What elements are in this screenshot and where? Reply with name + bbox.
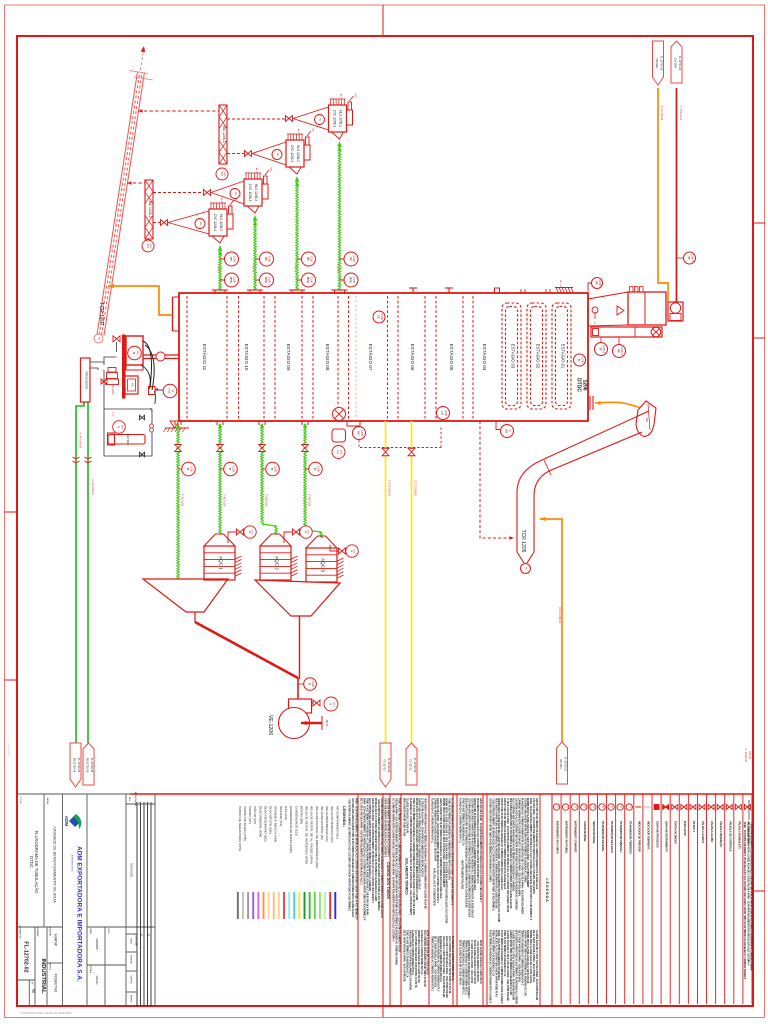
svg-text:1206.4: 1206.4 xyxy=(691,254,695,262)
svg-text:HEXANO (HX): HEXANO (HX) xyxy=(279,806,283,826)
svg-text:TUBO 40 A53 TÉRMICO FLANGEADA: TUBO 40 A53 TÉRMICO FLANGEADA AC CA xyxy=(462,798,465,846)
svg-text:1206: 1206 xyxy=(380,314,384,320)
svg-text:FL-12702-02: FL-12702-02 xyxy=(7,744,9,757)
svg-text:CONDENSADO (CD): CONDENSADO (CD) xyxy=(294,806,298,836)
svg-text:3"-VC-126-03: 3"-VC-126-03 xyxy=(660,106,663,121)
svg-text:FL-12702-06: FL-12702-06 xyxy=(90,758,93,773)
svg-text:C/ GR.B VÁLVULA PARA - SCH AST: C/ GR.B VÁLVULA PARA - SCH ASTM ISOLAMEN… xyxy=(506,798,509,912)
svg-text:TÉRMICO FLANGEADA AC CARBONO N: TÉRMICO FLANGEADA AC CARBONO NORMA NOTA … xyxy=(464,940,467,995)
svg-text:TT: TT xyxy=(687,256,691,260)
svg-text:PARA - SCH ASTM ISOLAMENTO 150: PARA - SCH ASTM ISOLAMENTO 150 INSTALAÇÃ… xyxy=(362,798,365,921)
svg-text:VÁLVULA GLOBO: VÁLVULA GLOBO xyxy=(710,821,713,842)
svg-text:INSTRUMENTO NO CAMPO: INSTRUMENTO NO CAMPO xyxy=(556,821,559,854)
svg-text:CLASSE ÁGUA DE C/ GR.B VÁLVULA: CLASSE ÁGUA DE C/ GR.B VÁLVULA PARA - SC… xyxy=(506,930,509,1001)
svg-text:TUBO 40 A53 TÉRMICO FLANGEADA: TUBO 40 A53 TÉRMICO FLANGEADA AC CARBONO… xyxy=(398,798,401,952)
svg-text:VAPOR TUBO 40 A53 TÉRMICO FLAN: VAPOR TUBO 40 A53 TÉRMICO FLANGEADA AC C… xyxy=(503,798,506,889)
svg-text:1206.2: 1206.2 xyxy=(602,345,606,353)
svg-text:DE C/ GR.B VÁLVULA PARA - SCH: DE C/ GR.B VÁLVULA PARA - SCH ASTM ISOL xyxy=(403,930,406,983)
svg-text:ASTM ISOLAMENTO 150 INSTALAÇÃO: ASTM ISOLAMENTO 150 INSTALAÇÃO AÇO COSTU… xyxy=(387,798,390,857)
svg-text:- SCH ASTM ISOLAMENTO 150 INST: - SCH ASTM ISOLAMENTO 150 INSTALAÇÃO AÇO… xyxy=(377,798,380,911)
svg-text:AR COMPRIMIDO (AC): AR COMPRIMIDO (AC) xyxy=(335,806,339,839)
svg-text:ADM: ADM xyxy=(64,816,69,827)
svg-text:2"-AQ-1206: 2"-AQ-1206 xyxy=(223,494,226,507)
svg-text:ÁGUA INDUSTRIAL DE EMERGÊNCIA: ÁGUA INDUSTRIAL DE EMERGÊNCIA (AIE) xyxy=(315,806,320,868)
svg-text:3"-VP-12: 3"-VP-12 xyxy=(294,264,296,274)
svg-text:FLANGEADA AC CARBONO NORMA NOT: FLANGEADA AC CARBONO NORMA NOTA CL xyxy=(431,798,434,844)
svg-text:FLANGEADA AC CARBONO NORMA NOT: FLANGEADA AC CARBONO NORMA NOTA CLASSE Á… xyxy=(409,798,412,915)
svg-text:FL-12700-01: FL-12700-01 xyxy=(564,757,567,772)
svg-text:PARA - SCH ASTM ISOLAMENTO 150: PARA - SCH ASTM ISOLAMENTO 150 INSTALA xyxy=(497,930,500,981)
svg-text:2"-AQ-1206: 2"-AQ-1206 xyxy=(181,494,184,507)
svg-text:RTS: RTS xyxy=(349,277,353,283)
svg-text:AC CARBONO NORMA NOTA CLASSE Á: AC CARBONO NORMA NOTA CLASSE ÁGUA DE C/ … xyxy=(746,822,749,966)
svg-text:TCR 1205: TCR 1205 xyxy=(520,530,526,553)
svg-text:TI: TI xyxy=(592,806,595,808)
svg-text:RTS: RTS xyxy=(264,277,268,283)
svg-text:AL-1: AL-1 xyxy=(340,94,343,99)
svg-text:PT: PT xyxy=(306,257,310,261)
svg-text:ADM EXPORTADORA E IMPORTADORA: ADM EXPORTADORA E IMPORTADORA S.A. xyxy=(76,846,83,982)
svg-text:REV: REV xyxy=(128,797,130,802)
svg-text:FL-12702-02: FL-12702-02 xyxy=(744,748,747,762)
svg-text:AL: AL xyxy=(199,222,203,226)
svg-text:ESTÁGIO 05: ESTÁGIO 05 xyxy=(449,344,455,371)
svg-text:FLANGEADA AC CARBONO NORMA NOT: FLANGEADA AC CARBONO NORMA NOTA CLASSE Á… xyxy=(520,798,523,915)
svg-text:TI: TI xyxy=(556,806,559,808)
svg-text:AL: AL xyxy=(276,153,280,157)
svg-text:K:\PROJETOS\FL-12702-02-R02.DW: K:\PROJETOS\FL-12702-02-R02.DWG xyxy=(20,1011,73,1015)
svg-text:1206: 1206 xyxy=(232,466,236,472)
svg-text:VER GAVETA VAPOR TUBO 40 A53 T: VER GAVETA VAPOR TUBO 40 A53 TÉRMICO FLA… xyxy=(515,930,518,1004)
svg-text:FLANGEADA AC CARBONO NORMA NOT: FLANGEADA AC CARBONO NORMA NOTA CL xyxy=(459,798,462,844)
svg-text:DTDC: DTDC xyxy=(29,856,34,868)
svg-text:DE C/ GR.B VÁLVULA PARA - SCH: DE C/ GR.B VÁLVULA PARA - SCH ASTM ISOL xyxy=(433,936,436,988)
svg-text:REV.02: REV.02 xyxy=(748,751,751,760)
svg-text:FILTRO Y: FILTRO Y xyxy=(692,821,695,832)
svg-text:FL-12702-06: FL-12702-06 xyxy=(387,758,390,773)
svg-text:VE-1206: VE-1206 xyxy=(267,715,273,735)
svg-text:AQC 1: AQC 1 xyxy=(219,556,224,570)
svg-text:ÁGUA ABRANDADA (AA): ÁGUA ABRANDADA (AA) xyxy=(325,806,329,841)
svg-text:ESTÁGIO 10: ESTÁGIO 10 xyxy=(244,344,250,371)
svg-text:VP: VP xyxy=(311,128,314,132)
svg-text:COSTURA VER GAVETA VAPOR TUBO: COSTURA VER GAVETA VAPOR TUBO 40 A53 TÉR… xyxy=(467,798,470,917)
svg-text:TUBO 40 A53 TÉRMICO FLANGEADA: TUBO 40 A53 TÉRMICO FLANGEADA AC CA xyxy=(405,930,408,978)
svg-text:PARA - SCH ASTM ISOLAMENTO 150: PARA - SCH ASTM ISOLAMENTO 150 INSTALAÇÃ… xyxy=(354,798,357,920)
svg-text:1206: 1206 xyxy=(311,681,315,687)
svg-text:ÁREA: ÁREA xyxy=(46,798,49,804)
svg-text:FB-12702-06: FB-12702-06 xyxy=(72,758,75,773)
svg-text:XS: XS xyxy=(505,429,509,433)
svg-text:1206: 1206 xyxy=(310,256,314,262)
svg-text:VAPOR DE SEGURANÇA (VPS): VAPOR DE SEGURANÇA (VPS) xyxy=(238,806,242,851)
svg-text:1206: 1206 xyxy=(352,277,356,283)
svg-text:ESTÁGIO 02: ESTÁGIO 02 xyxy=(536,344,541,369)
svg-text:PONTO DE DRENO: PONTO DE DRENO xyxy=(674,821,677,844)
svg-text:TI: TI xyxy=(228,468,232,471)
svg-text:1206: 1206 xyxy=(333,702,335,708)
svg-text:COSTURA VER GAVETA VAPOR TUBO: COSTURA VER GAVETA VAPOR TUBO 40 A53 TÉR… xyxy=(380,798,383,918)
svg-text:S/ESC: S/ESC xyxy=(95,975,99,985)
svg-text:AQC 2: AQC 2 xyxy=(275,556,280,570)
svg-text:GÁS (GS): GÁS (GS) xyxy=(284,806,288,820)
svg-text:UNIDADE: UNIDADE xyxy=(36,927,39,937)
svg-text:VAPOR TUBO 40 A53 TÉRMICO FLAN: VAPOR TUBO 40 A53 TÉRMICO FLANGEADA AC C… xyxy=(535,798,538,890)
svg-text:AL-2: AL-2 xyxy=(297,129,300,134)
svg-text:1206: 1206 xyxy=(352,256,356,262)
svg-text:TI: TI xyxy=(313,468,317,471)
svg-text:TI: TI xyxy=(577,359,581,362)
svg-text:4"-VPB-12-01: 4"-VPB-12-01 xyxy=(679,106,682,121)
svg-text:VP: VP xyxy=(269,167,272,171)
svg-text:TI: TI xyxy=(308,683,312,686)
svg-text:COSTURA VER GAVETA VAPOR TUBO: COSTURA VER GAVETA VAPOR TUBO 40 A53 TÉR… xyxy=(470,798,473,918)
svg-text:1206: 1206 xyxy=(233,277,237,283)
svg-text:TRANSMISSOR DE NÍVEL: TRANSMISSOR DE NÍVEL xyxy=(601,821,604,852)
svg-text:UNIDADE DE BENEFICIAMENTO DE S: UNIDADE DE BENEFICIAMENTO DE SOJA xyxy=(53,827,57,903)
svg-text:1206: 1206 xyxy=(444,410,448,416)
svg-text:NORMA NOTA CLASSE ÁGUA DE C/ G: NORMA NOTA CLASSE ÁGUA DE C/ GR.B VÁLVUL… xyxy=(442,798,445,887)
svg-text:GAVETA VAPOR TUBO 40 A53 TÉRMI: GAVETA VAPOR TUBO 40 A53 TÉRMICO FLANGEA… xyxy=(509,930,512,995)
svg-text:CYC 1206-2: CYC 1206-2 xyxy=(290,145,294,163)
svg-text:LT: LT xyxy=(377,315,381,319)
svg-text:FL-12702-06: FL-12702-06 xyxy=(77,758,80,773)
svg-text:ÁGUA DE C/ GR.B VÁLVULA PARA -: ÁGUA DE C/ GR.B VÁLVULA PARA - SCH ASTM … xyxy=(445,936,448,998)
svg-text:NORMA NOTA CLASSE ÁGUA DE C/ G: NORMA NOTA CLASSE ÁGUA DE C/ GR.B VÁLVUL xyxy=(529,930,532,984)
svg-text:ASTM ISOLAMENTO 150 INSTALAÇÃO: ASTM ISOLAMENTO 150 INSTALAÇÃO AÇO COSTU… xyxy=(384,798,387,857)
svg-text:HLS 1206.3: HLS 1206.3 xyxy=(254,184,258,201)
svg-text:VISTO: VISTO xyxy=(107,928,109,935)
svg-text:AC CARBONO NORMA NOTA CLASSE Á: AC CARBONO NORMA NOTA CLASSE ÁGUA DE C/ … xyxy=(451,798,454,906)
svg-text:FL-12702-02: FL-12702-02 xyxy=(23,941,29,972)
svg-text:TUBO 40 A53 TÉRMICO FLANGEADA: TUBO 40 A53 TÉRMICO FLANGEADA AC CARBONO… xyxy=(412,798,415,917)
svg-text:CÓDIGO DOS TUBOS: CÓDIGO DOS TUBOS xyxy=(386,862,391,900)
svg-text:TCR 1207: TCR 1207 xyxy=(98,302,104,326)
svg-text:ÓLEO MINERAL (OM): ÓLEO MINERAL (OM) xyxy=(258,806,263,837)
svg-text:VÁCUO (VC): VÁCUO (VC) xyxy=(253,806,257,824)
svg-text:INSTALAÇÃO AÇO COSTURA VER GAV: INSTALAÇÃO AÇO COSTURA VER GAVETA VAPOR … xyxy=(374,798,377,901)
svg-text:Nº: Nº xyxy=(31,982,34,984)
svg-text:CID-1206: CID-1206 xyxy=(111,383,115,395)
svg-text:SENSOR DE NÍVEL: SENSOR DE NÍVEL xyxy=(592,821,595,844)
svg-text:BORRA (BR): BORRA (BR) xyxy=(299,806,303,824)
svg-text:VAPOR TUBO 40 A53 TÉRMICO FLAN: VAPOR TUBO 40 A53 TÉRMICO FLANGEADA AC C… xyxy=(418,798,421,890)
svg-text:AL-4: AL-4 xyxy=(220,198,223,203)
svg-text:INDICADOR DE PRESSÃO: INDICADOR DE PRESSÃO xyxy=(637,821,640,852)
svg-text:- SCH ASTM ISOLAMENTO 150 INST: - SCH ASTM ISOLAMENTO 150 INSTA xyxy=(476,940,479,982)
svg-text:1206: 1206 xyxy=(268,277,272,283)
svg-text:1206: 1206 xyxy=(233,256,237,262)
svg-text:AL: AL xyxy=(234,192,238,196)
svg-text:2"-CD-1206-02: 2"-CD-1206-02 xyxy=(414,480,417,497)
svg-text:FL-12700-03: FL-12700-03 xyxy=(660,56,663,71)
svg-text:DESENH.: DESENH. xyxy=(49,927,51,937)
svg-text:AÇO COSTURA VER GAVETA VAPOR T: AÇO COSTURA VER GAVETA VAPOR TUBO 40 A53… xyxy=(368,798,371,891)
svg-text:VER GAVETA VAPOR TUBO 40 A53 T: VER GAVETA VAPOR TUBO 40 A53 TÉRMICO FLA… xyxy=(494,798,497,909)
svg-text:TT: TT xyxy=(599,347,603,351)
svg-text:ÁGUA DE C/ GR.B VÁLVULA PARA -: ÁGUA DE C/ GR.B VÁLVULA PARA - SCH ASTM … xyxy=(442,936,445,997)
svg-text:NOTA CLASSE ÁGUA DE C/ GR.B VÁ: NOTA CLASSE ÁGUA DE C/ GR.B VÁLVU xyxy=(459,940,462,985)
svg-text:FILTRO: FILTRO xyxy=(126,434,130,445)
svg-text:INSTRUMENTO COMPART.: INSTRUMENTO COMPART. xyxy=(574,821,577,853)
svg-text:CLASSE ÁGUA DE C/ GR.B VÁLVULA: CLASSE ÁGUA DE C/ GR.B VÁLVULA PARA - SC… xyxy=(535,930,538,1000)
svg-text:INDUSTRIAL: INDUSTRIAL xyxy=(40,958,46,994)
svg-text:TI: TI xyxy=(565,806,568,808)
svg-text:- SCH ASTM ISOLAMENTO 150 INST: - SCH ASTM ISOLAMENTO 150 INSTALAÇÃO AÇO… xyxy=(750,822,753,971)
svg-text:AÇO COSTURA VER GAVETA VAPOR T: AÇO COSTURA VER GAVETA VAPOR TUBO 40 A53… xyxy=(423,930,426,987)
svg-text:RTS: RTS xyxy=(229,277,233,283)
svg-text:NORMA NOTA CLASSE ÁGUA DE C/ G: NORMA NOTA CLASSE ÁGUA DE C/ GR.B VÁLVUL xyxy=(417,930,420,984)
svg-text:APROV.: APROV. xyxy=(130,995,133,1003)
svg-text:OP-1207: OP-1207 xyxy=(559,759,562,770)
svg-text:FLANGEADA AC CARBONO NORMA NOT: FLANGEADA AC CARBONO NORMA NOTA CL xyxy=(439,936,442,983)
svg-text:ISOLAMENTO TÉRMICO: ISOLAMENTO TÉRMICO xyxy=(405,858,410,895)
svg-text:2"-AQ-1206: 2"-AQ-1206 xyxy=(265,494,268,507)
svg-text:NORMA NOTA CLASSE ÁGUA DE C/ G: NORMA NOTA CLASSE ÁGUA DE C/ GR.B VÁLVUL… xyxy=(497,798,500,922)
svg-text:GAVETA VAPOR TUBO 40 A53 TÉRMI: GAVETA VAPOR TUBO 40 A53 TÉRMICO FLANGEA… xyxy=(439,798,442,899)
svg-text:TRANSMISSOR TEMPERAT.: TRANSMISSOR TEMPERAT. xyxy=(628,821,631,854)
svg-text:150 INSTALAÇÃO AÇO COSTURA VER: 150 INSTALAÇÃO AÇO COSTURA VER GAVETA VA… xyxy=(515,798,518,910)
svg-text:PI: PI xyxy=(117,426,120,429)
svg-text:PSE: PSE xyxy=(336,450,338,455)
svg-text:1206: 1206 xyxy=(274,466,278,472)
svg-text:DE C/ GR.B VÁLVULA PARA - SCH: DE C/ GR.B VÁLVULA PARA - SCH ASTM ISOLA… xyxy=(360,798,363,885)
svg-text:1206: 1206 xyxy=(268,256,272,262)
svg-text:DE C/ GR.B VÁLVULA PARA - SCH: DE C/ GR.B VÁLVULA PARA - SCH ASTM ISOL xyxy=(518,930,521,983)
svg-text:1206: 1206 xyxy=(353,549,355,555)
svg-text:TI: TI xyxy=(610,806,613,808)
svg-text:PT: PT xyxy=(229,257,233,261)
svg-text:AÇO COSTURA VER GAVETA VAPOR T: AÇO COSTURA VER GAVETA VAPOR TUBO 40 A53… xyxy=(448,936,451,994)
svg-text:1206: 1206 xyxy=(223,172,225,178)
svg-text:INSTALAÇÃO AÇO COSTURA VER GAV: INSTALAÇÃO AÇO COSTURA VER GAVETA VAPOR … xyxy=(494,930,497,997)
svg-text:VÁLVULA PARA - SCH ASTM ISOLAM: VÁLVULA PARA - SCH ASTM ISOLAMENTO 150 I… xyxy=(532,798,535,894)
svg-text:TÉRMICO FLANGEADA AC CARBONO N: TÉRMICO FLANGEADA AC CARBONO NORMA NOTA … xyxy=(436,936,439,992)
svg-text:REFERÊNCIAS: REFERÊNCIAS xyxy=(747,800,752,820)
svg-text:40 A53 TÉRMICO FLANGEADA AC CA: 40 A53 TÉRMICO FLANGEADA AC CARBONO NORM… xyxy=(489,930,492,1003)
svg-text:VÁLVULA DE CONTROLE: VÁLVULA DE CONTROLE xyxy=(728,821,731,852)
svg-text:FB-12702-06: FB-12702-06 xyxy=(85,758,88,773)
svg-text:WS: WS xyxy=(220,172,223,176)
svg-text:CLASSE ÁGUA DE C/ GR.B VÁLVULA: CLASSE ÁGUA DE C/ GR.B VÁLVULA PARA - SC… xyxy=(512,930,515,1000)
svg-text:ISOLAMENTO 150 INSTALAÇÃO AÇO: ISOLAMENTO 150 INSTALAÇÃO AÇO COSTURA VE… xyxy=(476,798,479,884)
svg-text:VÁLVULA GAVETA: VÁLVULA GAVETA xyxy=(701,821,704,843)
svg-text:CYC 1206-1: CYC 1206-1 xyxy=(333,110,337,128)
svg-text:FS-12702: FS-12702 xyxy=(382,760,385,772)
svg-text:BC 1206-1: BC 1206-1 xyxy=(222,126,226,142)
svg-text:1206: 1206 xyxy=(598,280,602,286)
svg-text:COSTURA VER GAVETA VAPOR TUBO: COSTURA VER GAVETA VAPOR TUBO 40 A53 TÉR… xyxy=(523,798,526,883)
svg-text:PARA - SCH ASTM ISOLAMENTO 150: PARA - SCH ASTM ISOLAMENTO 150 INSTALAÇÃ… xyxy=(529,798,532,921)
svg-text:PI: PI xyxy=(248,531,251,534)
svg-text:CYC 1206-4: CYC 1206-4 xyxy=(213,214,217,232)
svg-text:PT: PT xyxy=(617,349,621,353)
svg-text:ÓLEO DEGOMADO (OD): ÓLEO DEGOMADO (OD) xyxy=(263,806,268,841)
svg-text:COSTURA VER GAVETA VAPOR TUBO: COSTURA VER GAVETA VAPOR TUBO 40 A53 TÉR… xyxy=(489,798,492,882)
svg-text:TROCADOR: TROCADOR xyxy=(85,371,89,389)
svg-text:MOA: MOA xyxy=(168,389,171,395)
svg-text:HLS 1206.1: HLS 1206.1 xyxy=(339,110,343,127)
svg-text:VAPOR TUBO 40 A53 TÉRMICO FLAN: VAPOR TUBO 40 A53 TÉRMICO FLANGEADA AC C… xyxy=(473,798,476,891)
svg-text:ESTÁGIO 06: ESTÁGIO 06 xyxy=(410,344,416,371)
svg-text:CONDENSADO DE BAIXA (CDB): CONDENSADO DE BAIXA (CDB) xyxy=(289,806,293,853)
svg-text:PT: PT xyxy=(264,257,268,261)
svg-text:ESTÁGIO 11: ESTÁGIO 11 xyxy=(202,344,208,371)
svg-text:3"-VP-12: 3"-VP-12 xyxy=(217,264,219,274)
svg-text:ESTÁGIO 08: ESTÁGIO 08 xyxy=(325,344,331,371)
svg-text:PT: PT xyxy=(595,281,599,285)
svg-text:2"-AQ-1206: 2"-AQ-1206 xyxy=(308,494,311,507)
svg-text:DATA: DATA xyxy=(130,938,133,944)
svg-text:AL: AL xyxy=(319,118,323,122)
svg-text:XV: XV xyxy=(357,431,361,435)
svg-text:NOTA CLASSE ÁGUA DE C/ GR.B VÁ: NOTA CLASSE ÁGUA DE C/ GR.B VÁLVU xyxy=(426,930,429,975)
svg-text:2"-CD-1206-01: 2"-CD-1206-01 xyxy=(388,480,391,497)
svg-text:1 ½": 1 ½" xyxy=(111,412,115,417)
svg-text:DATA: DATA xyxy=(89,928,92,934)
svg-text:WS: WS xyxy=(146,244,149,248)
svg-text:TI: TI xyxy=(270,468,274,471)
svg-text:FLANGEADA AC CARBONO NORMA NOT: FLANGEADA AC CARBONO NORMA NOTA CL xyxy=(451,936,454,981)
svg-text:VAPOR DE BAIXA (VPB): VAPOR DE BAIXA (VPB) xyxy=(243,806,247,841)
svg-text:VER GAVETA VAPOR TUBO 40 A53 T: VER GAVETA VAPOR TUBO 40 A53 TÉRMICO FLA… xyxy=(424,798,427,909)
svg-text:BC 1206-2: BC 1206-2 xyxy=(148,201,152,217)
svg-text:- SCH ASTM ISOLAMENTO 150 INST: - SCH ASTM ISOLAMENTO 150 INSTALAÇÃO AÇO… xyxy=(491,798,494,911)
svg-text:TUBO 40 A53 TÉRMICO FLANGEADA: TUBO 40 A53 TÉRMICO FLANGEADA AC CA xyxy=(503,930,506,977)
svg-text:6"-VC-1206-01: 6"-VC-1206-01 xyxy=(558,607,561,624)
svg-text:VER GAVETA VAPOR TUBO 40 A53: VER GAVETA VAPOR TUBO 40 A53 xyxy=(403,798,406,837)
svg-text:HARSF: HARSF xyxy=(54,934,58,947)
svg-text:CHAVE DE NÍVEL: CHAVE DE NÍVEL xyxy=(583,821,586,842)
svg-text:1206: 1206 xyxy=(251,530,253,536)
svg-text:L E G E N D A: L E G E N D A xyxy=(545,878,549,902)
svg-text:1206: 1206 xyxy=(149,244,151,250)
svg-text:GAVETA VAPOR TUBO 40 A53 TÉRMI: GAVETA VAPOR TUBO 40 A53 TÉRMICO FLANGEA… xyxy=(523,930,526,996)
svg-text:VP: VP xyxy=(354,93,357,97)
svg-text:CYC 1206-3: CYC 1206-3 xyxy=(248,184,252,202)
svg-text:INSTRUMENTO NO PAINEL: INSTRUMENTO NO PAINEL xyxy=(565,821,568,854)
svg-text:EH-1206: EH-1206 xyxy=(673,58,676,68)
svg-text:NORMA NOTA CLASSE ÁGUA DE C/ G: NORMA NOTA CLASSE ÁGUA DE C/ GR.B VÁLVUL… xyxy=(526,798,529,888)
svg-text:FLANGEADA AC CARBONO NORMA NOT: FLANGEADA AC CARBONO NORMA NOTA CL xyxy=(411,930,414,976)
svg-text:3"-VP-12: 3"-VP-12 xyxy=(252,264,254,274)
svg-text:TI: TI xyxy=(186,468,190,471)
svg-text:1206.2: 1206.2 xyxy=(620,347,624,355)
svg-text:VER GAVETA VAPOR TUBO 40 A53 T: VER GAVETA VAPOR TUBO 40 A53 TÉRMICO FLA… xyxy=(509,798,512,909)
svg-text:AC CARBONO NORMA NOTA CLASSE Á: AC CARBONO NORMA NOTA CLASSE ÁGUA DE C/ … xyxy=(392,798,395,942)
svg-text:1206: 1206 xyxy=(317,466,321,472)
svg-text:AQC 3: AQC 3 xyxy=(321,558,326,572)
svg-text:ÁGUA INDUSTRIAL (AI): ÁGUA INDUSTRIAL (AI) xyxy=(320,806,324,840)
svg-text:TI: TI xyxy=(583,806,586,808)
svg-text:COSTURA VER GAVETA VAPOR TUBO: COSTURA VER GAVETA VAPOR TUBO 40 A53 TÉR… xyxy=(351,798,354,917)
svg-text:FL-12700-03: FL-12700-03 xyxy=(678,56,681,71)
svg-text:1206: 1206 xyxy=(340,450,342,456)
svg-text:PI: PI xyxy=(304,531,307,534)
svg-text:DESCRIÇÃO: DESCRIÇÃO xyxy=(130,863,133,877)
svg-text:TI: TI xyxy=(574,806,577,808)
svg-text:VAPOR TUBO 40 A53 TÉRMICO FLAN: VAPOR TUBO 40 A53 TÉRMICO FLANGEADA AC C… xyxy=(500,798,503,890)
svg-text:PI: PI xyxy=(329,703,332,706)
svg-text:GR.B VÁLVULA PARA - SCH ASTM I: GR.B VÁLVULA PARA - SCH ASTM ISOLAMENTO … xyxy=(479,798,482,903)
svg-text:1206: 1206 xyxy=(310,277,314,283)
svg-text:LEGENDA:: LEGENDA: xyxy=(342,806,347,827)
svg-text:DE C/ GR.B VÁLVULA PARA - SCH: DE C/ GR.B VÁLVULA PARA - SCH ASTM ISOL xyxy=(532,930,535,983)
svg-text:CLASSE ÁGUA DE C/ GR.B VÁL: CLASSE ÁGUA DE C/ GR.B VÁL xyxy=(406,798,409,834)
svg-text:1206: 1206 xyxy=(121,425,123,431)
svg-text:1206: 1206 xyxy=(307,530,309,536)
svg-text:HLS 1206.2: HLS 1206.2 xyxy=(296,145,300,162)
svg-text:APROV.: APROV. xyxy=(49,963,52,971)
svg-text:VÁLVULA RETENÇÃO: VÁLVULA RETENÇÃO xyxy=(719,821,722,847)
svg-text:1206: 1206 xyxy=(190,466,194,472)
svg-text:VÁLVULA PARA - SCH ASTM ISOLAM: VÁLVULA PARA - SCH ASTM ISOLAMENTO 150 I… xyxy=(395,798,398,965)
svg-text:1206: 1206 xyxy=(136,351,138,357)
svg-text:1206: 1206 xyxy=(582,379,588,390)
svg-text:ESTÁGIO 03: ESTÁGIO 03 xyxy=(511,344,516,369)
svg-text:HEXANO E MICELA (HM): HEXANO E MICELA (HM) xyxy=(274,806,278,842)
svg-text:VÁLVULA BORBOLETA: VÁLVULA BORBOLETA xyxy=(737,821,740,849)
svg-text:AL-3: AL-3 xyxy=(255,168,258,173)
svg-text:PT: PT xyxy=(349,257,353,261)
svg-text:TI: TI xyxy=(628,806,631,808)
svg-text:INDICADOR TEMPERAT.: INDICADOR TEMPERAT. xyxy=(646,821,649,850)
svg-text:ÁGUA DE RESFR. DE REATORES (AR: ÁGUA DE RESFR. DE REATORES (ARR) xyxy=(305,806,309,864)
svg-text:FS-12702: FS-12702 xyxy=(408,760,411,772)
svg-text:NOTA CLASSE ÁGUA DE C/ GR.B VÁ: NOTA CLASSE ÁGUA DE C/ GR.B VÁLVU xyxy=(473,940,476,984)
svg-text:TB-1263: TB-1263 xyxy=(655,58,658,68)
svg-text:TRANSMISSOR DE FLUXO: TRANSMISSOR DE FLUXO xyxy=(610,821,613,853)
svg-text:ASTM ISOLAMENTO 150 INSTALAÇÃO: ASTM ISOLAMENTO 150 INSTALAÇÃO AÇO COSTU… xyxy=(467,940,470,999)
svg-text:VERIFIC.: VERIFIC. xyxy=(130,975,132,985)
svg-text:AR IN: AR IN xyxy=(325,720,329,727)
svg-text:1206: 1206 xyxy=(581,357,585,363)
svg-text:TUBO 40 A53 TÉRMICO FLANGEADA: TUBO 40 A53 TÉRMICO FLANGEADA AC CA xyxy=(491,930,494,976)
svg-text:NOTA CLASSE ÁGUA DE C/ GR.B VÁ: NOTA CLASSE ÁGUA DE C/ GR.B VÁLVU xyxy=(479,940,482,984)
svg-text:AGRONEGÓCIO: AGRONEGÓCIO xyxy=(71,855,74,872)
svg-text:C/ GR.B VÁLVULA PARA - SCH AST: C/ GR.B VÁLVULA PARA - SCH ASTM xyxy=(470,940,473,983)
svg-text:GR.B VÁLVULA PARA - SCH ASTM I: GR.B VÁLVULA PARA - SCH ASTM ISOLAMENTO … xyxy=(371,798,374,903)
svg-text:1206: 1206 xyxy=(360,430,364,436)
svg-text:40 A53 TÉRMICO FLANGEADA AC CA: 40 A53 TÉRMICO FLANGEADA AC CARBONO NORM… xyxy=(500,930,503,1004)
svg-text:10/08/05: 10/08/05 xyxy=(95,938,99,950)
svg-text:TI: TI xyxy=(601,806,604,808)
svg-text:02: 02 xyxy=(32,989,36,993)
svg-text:VER GAVETA VAPOR TUBO 40 A53 T: VER GAVETA VAPOR TUBO 40 A53 TÉRMICO FLA… xyxy=(465,798,468,908)
svg-text:TRANSMISSOR PRESSÃO: TRANSMISSOR PRESSÃO xyxy=(619,821,622,852)
svg-text:MODIFICAÇÃO: MODIFICAÇÃO xyxy=(134,792,137,807)
svg-text:INSTALAÇÃO AÇO COSTURA VER GAV: INSTALAÇÃO AÇO COSTURA VER GAVETA VAPOR … xyxy=(415,798,418,900)
svg-text:DESENHO Nº: DESENHO Nº xyxy=(19,925,22,938)
svg-text:- SCH ASTM ISOLAMENTO 150 INST: - SCH ASTM ISOLAMENTO 150 INSTALAÇÃO AÇO… xyxy=(348,798,351,911)
svg-text:NORMA NOTA CLASSE ÁGUA DE C/ G: NORMA NOTA CLASSE ÁGUA DE C/ GR.B VÁLVUL xyxy=(526,930,529,984)
svg-text:FL-12702-06: FL-12702-06 xyxy=(413,758,416,773)
svg-text:MS: MS xyxy=(645,418,648,422)
svg-text:3"-VP-12: 3"-VP-12 xyxy=(336,264,338,274)
svg-text:PI: PI xyxy=(350,550,353,553)
svg-text:1 ½": 1 ½" xyxy=(149,408,153,413)
svg-text:DTDC: DTDC xyxy=(576,378,582,392)
svg-text:LS: LS xyxy=(441,411,445,415)
svg-text:FOSEUTNO: FOSEUTNO xyxy=(54,974,58,993)
svg-text:ESTÁGIO 09: ESTÁGIO 09 xyxy=(286,344,292,371)
svg-text:FIL: FIL xyxy=(131,383,135,387)
svg-text:AÇO COSTURA VER GAVETA VAPOR T: AÇO COSTURA VER GAVETA VAPOR TUBO 40 A53… xyxy=(512,798,515,892)
svg-text:MI: MI xyxy=(525,567,527,570)
svg-text:VP: VP xyxy=(234,197,237,201)
svg-text:TÍTULO: TÍTULO xyxy=(19,796,22,804)
svg-text:MI: MI xyxy=(98,337,100,340)
